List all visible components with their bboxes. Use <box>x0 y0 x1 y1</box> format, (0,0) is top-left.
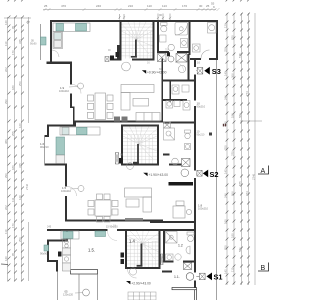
svg-text:575: 575 <box>238 53 242 58</box>
svg-text:380: 380 <box>4 139 8 144</box>
svg-text:581: 581 <box>238 113 242 118</box>
svg-text:+2.90/+43.00: +2.90/+43.00 <box>131 281 151 285</box>
svg-text:140: 140 <box>4 20 8 25</box>
svg-text:250: 250 <box>223 245 227 250</box>
svg-text:+0.90/+43.00: +0.90/+43.00 <box>147 71 167 75</box>
svg-text:345: 345 <box>18 163 22 168</box>
svg-text:90x90: 90x90 <box>30 43 37 46</box>
svg-text:575: 575 <box>238 181 242 186</box>
svg-text:113: 113 <box>162 4 167 8</box>
svg-text:120: 120 <box>18 123 22 128</box>
svg-text:95: 95 <box>11 252 15 256</box>
svg-text:210: 210 <box>128 4 133 8</box>
svg-text:296: 296 <box>4 99 8 104</box>
svg-text:470: 470 <box>61 4 66 8</box>
svg-text:246: 246 <box>223 95 227 100</box>
svg-text:100x210: 100x210 <box>59 89 70 93</box>
svg-text:262: 262 <box>4 205 8 210</box>
svg-text:1.5.: 1.5. <box>88 248 95 253</box>
svg-text:110: 110 <box>4 229 8 234</box>
svg-text:774: 774 <box>245 91 249 96</box>
svg-text:250: 250 <box>223 47 227 52</box>
svg-text:370: 370 <box>230 35 234 40</box>
svg-text:120: 120 <box>18 195 22 200</box>
svg-text:774: 774 <box>245 191 249 196</box>
svg-text:145: 145 <box>223 269 227 274</box>
svg-text:90x90: 90x90 <box>40 252 48 256</box>
svg-text:1.4: 1.4 <box>129 239 135 244</box>
svg-text:B: B <box>261 265 266 272</box>
svg-text:170: 170 <box>11 50 15 55</box>
svg-text:1.2: 1.2 <box>178 244 183 248</box>
svg-text:90: 90 <box>159 13 163 17</box>
svg-text:256: 256 <box>18 237 22 242</box>
svg-text:366: 366 <box>230 191 234 196</box>
svg-text:110: 110 <box>4 41 8 46</box>
svg-text:S2: S2 <box>210 170 219 179</box>
svg-text:S1: S1 <box>214 273 223 282</box>
svg-text:366: 366 <box>230 73 234 78</box>
svg-text:110: 110 <box>147 4 152 8</box>
svg-text:111: 111 <box>230 267 234 272</box>
svg-text:345: 345 <box>18 39 22 44</box>
svg-text:2746: 2746 <box>252 173 256 180</box>
svg-text:262: 262 <box>4 67 8 72</box>
svg-text:2746: 2746 <box>25 183 29 190</box>
svg-text:25: 25 <box>206 4 210 8</box>
svg-text:90x210: 90x210 <box>40 145 49 149</box>
svg-text:296: 296 <box>4 173 8 178</box>
svg-text:90x210: 90x210 <box>197 134 206 137</box>
svg-text:+1.90/+43.00: +1.90/+43.00 <box>149 173 169 177</box>
svg-text:170: 170 <box>11 223 15 228</box>
svg-text:145: 145 <box>223 169 227 174</box>
svg-text:180: 180 <box>11 85 15 90</box>
svg-text:S3: S3 <box>212 67 221 76</box>
svg-text:180: 180 <box>230 113 234 118</box>
svg-text:30: 30 <box>199 4 203 8</box>
svg-text:1.1.: 1.1. <box>174 275 180 279</box>
svg-text:120: 120 <box>223 219 227 224</box>
svg-text:246: 246 <box>96 4 101 8</box>
svg-text:111: 111 <box>11 197 15 202</box>
svg-text:140: 140 <box>4 256 8 261</box>
svg-text:▮▮: ▮▮ <box>223 123 227 127</box>
svg-text:581: 581 <box>238 247 242 252</box>
svg-text:90x210: 90x210 <box>197 105 206 109</box>
svg-text:255: 255 <box>11 131 15 136</box>
svg-text:370: 370 <box>230 151 234 156</box>
svg-text:100x210: 100x210 <box>61 189 72 193</box>
svg-text:145: 145 <box>223 71 227 76</box>
svg-text:176: 176 <box>182 4 187 8</box>
svg-text:256: 256 <box>18 81 22 86</box>
svg-text:246: 246 <box>223 193 227 198</box>
svg-text:180: 180 <box>11 165 15 170</box>
svg-text:100x210: 100x210 <box>198 207 209 211</box>
svg-text:25: 25 <box>44 4 48 8</box>
svg-text:180: 180 <box>230 233 234 238</box>
svg-text:120: 120 <box>223 23 227 28</box>
svg-text:A: A <box>261 168 266 175</box>
svg-text:250: 250 <box>223 145 227 150</box>
svg-text:95: 95 <box>11 25 15 29</box>
svg-text:120x120: 120x120 <box>63 293 74 297</box>
svg-text:245: 245 <box>47 226 52 229</box>
